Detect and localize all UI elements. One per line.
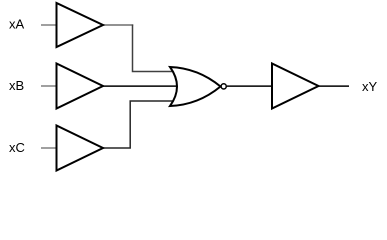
- wire U3 output to NOR bottom input: [103, 101, 180, 148]
- svg-text:xC: xC: [9, 140, 25, 155]
- svg-text:xY: xY: [362, 79, 378, 94]
- nor gate U4 output inversion bubble: [221, 84, 226, 89]
- wire U1 output bend down to NOR top input: [133, 25, 181, 72]
- wire NOR output to buffer U5: [227, 85, 272, 87]
- buffer U2: [57, 64, 104, 109]
- wire xC input stub: [41, 147, 57, 149]
- nor gate U4 body: [170, 67, 221, 106]
- buffer U1: [57, 3, 104, 47]
- wire xB input stub: [41, 85, 57, 87]
- wire xA input stub: [41, 24, 57, 26]
- buffer U5: [272, 64, 319, 109]
- wire U2 output to NOR middle input: [103, 85, 179, 87]
- svg-text:xB: xB: [9, 78, 24, 93]
- wire U5 output stub: [319, 85, 350, 87]
- wire U1 output horizontal segment: [103, 24, 133, 26]
- svg-text:xA: xA: [9, 17, 25, 32]
- buffer U3: [57, 126, 104, 171]
